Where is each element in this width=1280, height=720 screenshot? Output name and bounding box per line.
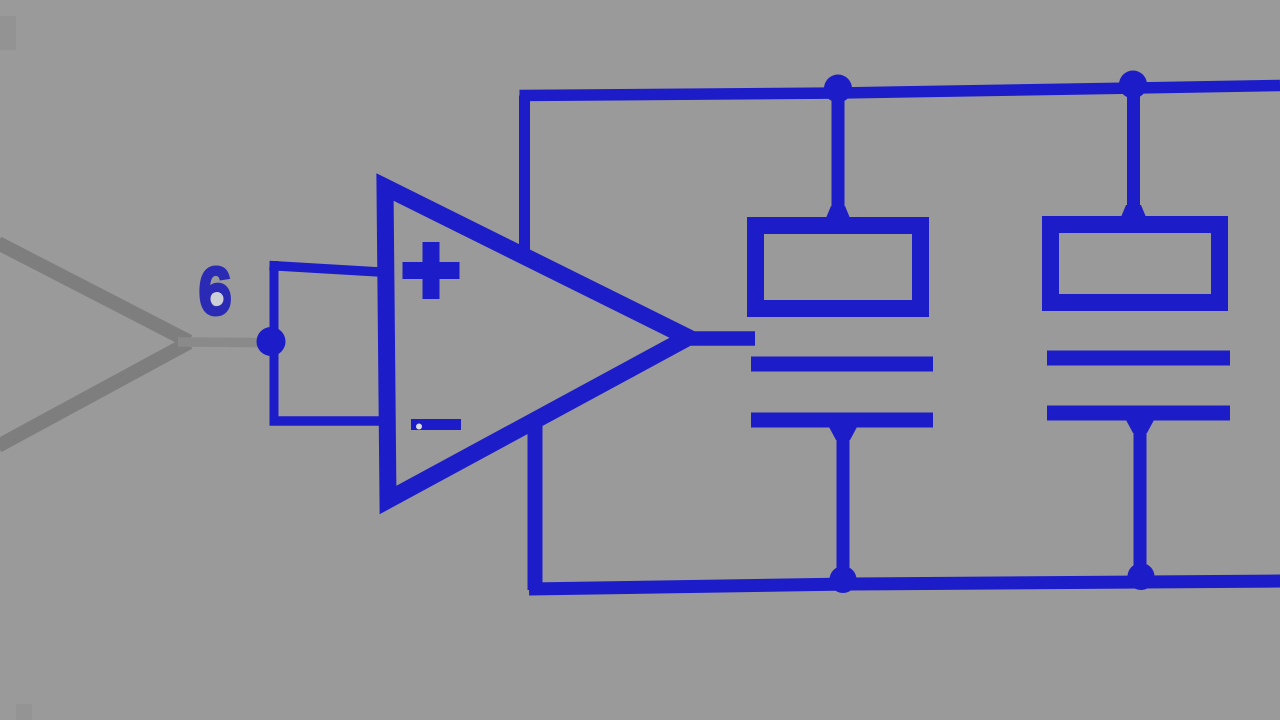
wire: gray input upper segment xyxy=(0,243,189,342)
capacitor C1 plates xyxy=(751,364,933,420)
op-amp - input marking xyxy=(411,419,461,430)
wire: loop bottom horizontal to - input xyxy=(270,416,389,426)
wire: C2 bottom lead xyxy=(1126,413,1154,578)
node: top rail junction dot 2 xyxy=(1119,71,1147,99)
wire: C2 top lead xyxy=(1121,87,1146,218)
wire: positive supply vertical into op-amp top xyxy=(519,96,530,263)
op-amp + input marking xyxy=(403,242,460,299)
wire: loop left vertical xyxy=(270,261,279,425)
node: bottom rail junction dot 1 xyxy=(830,566,857,593)
svg-text:6: 6 xyxy=(199,253,232,329)
capacitor C1 body (rectangle electrode) xyxy=(756,226,921,309)
capacitor C2 body (rectangle electrode) xyxy=(1051,225,1220,303)
wire: C1 bottom lead xyxy=(829,420,857,584)
op-amp U1 (triangle) xyxy=(385,187,688,500)
wire: C1 top lead xyxy=(826,93,850,219)
wire: negative supply vertical from op-amp bottom xyxy=(528,418,543,590)
capacitor C2 plates xyxy=(1047,358,1230,413)
wire: gray input lower segment xyxy=(0,343,189,447)
wire: gray stub to node xyxy=(178,337,258,347)
wire: op-amp output stub xyxy=(680,331,755,346)
node: bottom rail junction dot 2 xyxy=(1128,563,1155,590)
node: top rail junction dot 1 xyxy=(824,75,852,103)
wire: loop top horizontal to + input xyxy=(270,266,389,273)
node label 6 xyxy=(199,253,232,329)
wire: bottom supply rail xyxy=(529,581,1280,589)
wire: top supply rail xyxy=(520,86,1280,96)
node A (junction dot at input) xyxy=(257,327,286,356)
